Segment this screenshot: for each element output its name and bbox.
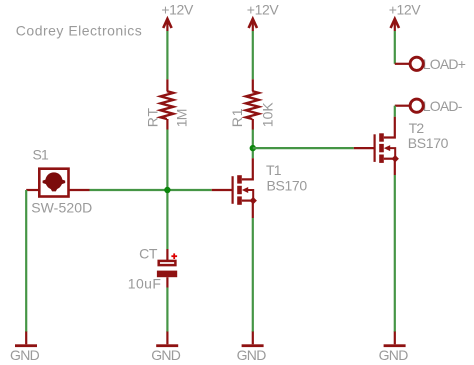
ground GND rail C xyxy=(237,332,267,364)
node junction rail C (T2 gate tap) xyxy=(250,145,256,151)
svg-text:LOAD+: LOAD+ xyxy=(423,56,466,72)
svg-text:T1: T1 xyxy=(266,162,282,178)
wire rail B top xyxy=(166,31,168,79)
svg-text:10uF: 10uF xyxy=(128,276,162,292)
supply symbol +12V (rail B) xyxy=(161,2,194,31)
svg-text:1M: 1M xyxy=(174,109,190,127)
svg-text:BS170: BS170 xyxy=(267,177,308,193)
node junction rail B (gate net) xyxy=(164,187,170,193)
wire rail B middle xyxy=(166,130,168,250)
svg-text:GND: GND xyxy=(379,347,409,363)
svg-text:BS170: BS170 xyxy=(408,135,449,151)
wire rail D (LOAD- to T2 drain) xyxy=(394,106,396,117)
capacitor CT xyxy=(128,246,177,292)
resistor RT xyxy=(145,79,190,129)
wire rail B bottom xyxy=(166,288,168,333)
wire rail D bottom xyxy=(394,175,396,332)
wire rail C bottom xyxy=(252,218,254,332)
wire rail C middle xyxy=(252,130,254,159)
svg-text:S1: S1 xyxy=(33,147,50,163)
watermark Codrey Electronics xyxy=(16,23,143,39)
svg-text:GND: GND xyxy=(237,347,267,363)
wire rail C top xyxy=(252,31,254,79)
ground GND rail B xyxy=(151,332,181,364)
svg-text:+12V: +12V xyxy=(247,2,280,18)
svg-text:+12V: +12V xyxy=(389,2,422,18)
svg-text:T2: T2 xyxy=(409,120,425,136)
terminal LOAD+ xyxy=(395,56,466,72)
wire rail A xyxy=(25,190,27,332)
svg-text:GND: GND xyxy=(151,347,181,363)
supply symbol +12V (rail D) xyxy=(389,2,422,31)
svg-text:SW-520D: SW-520D xyxy=(31,200,92,216)
terminal LOAD- xyxy=(395,98,463,114)
wire T2 gate net xyxy=(253,147,354,149)
wire rail D top xyxy=(394,31,396,64)
wire gate net (S1 to T1 gate) xyxy=(90,189,212,191)
svg-text:R1: R1 xyxy=(229,108,245,128)
svg-text:10K: 10K xyxy=(260,102,276,128)
svg-text:+12V: +12V xyxy=(161,2,194,18)
ground GND rail D xyxy=(379,332,409,364)
switch S1 SW-520D xyxy=(26,147,92,216)
svg-text:CT: CT xyxy=(139,246,158,262)
svg-text:LOAD-: LOAD- xyxy=(423,98,463,114)
transistor T1 BS170 xyxy=(212,158,308,218)
svg-text:Codrey Electronics: Codrey Electronics xyxy=(16,23,143,39)
svg-text:GND: GND xyxy=(10,347,40,363)
supply symbol +12V (rail C) xyxy=(247,2,280,31)
resistor R1 xyxy=(229,79,276,129)
ground GND rail A xyxy=(10,332,40,364)
svg-text:RT: RT xyxy=(145,107,161,127)
transistor T2 BS170 xyxy=(354,117,449,175)
